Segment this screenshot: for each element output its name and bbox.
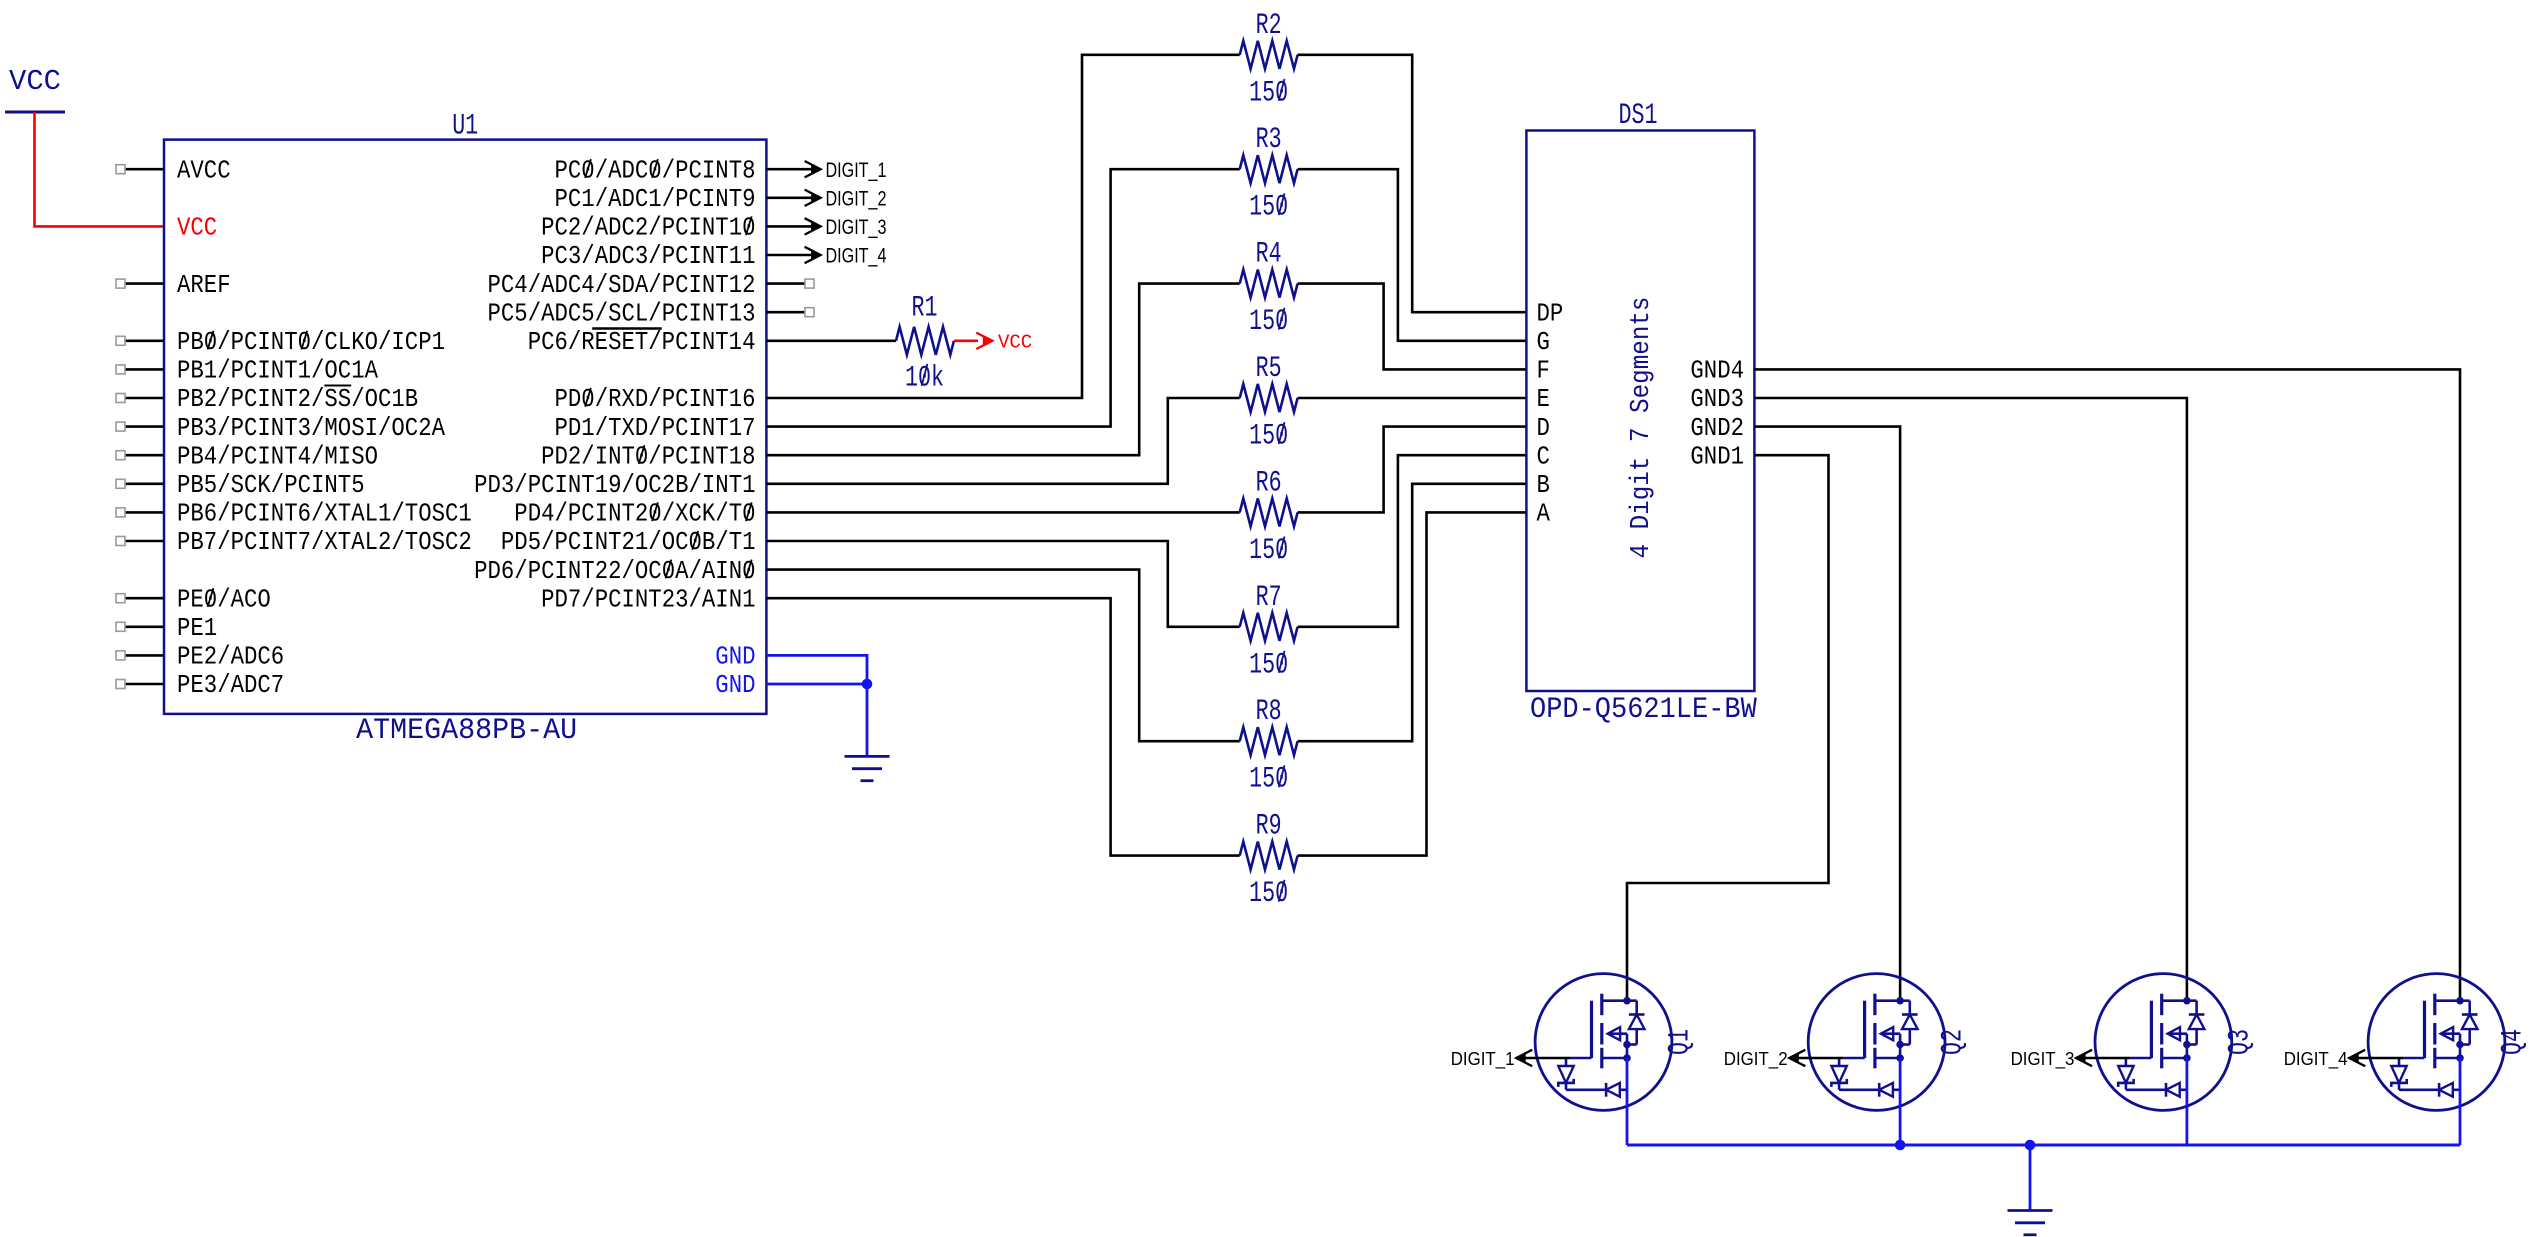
svg-text:DIGIT_1: DIGIT_1: [826, 159, 887, 182]
U1 pin PC2/ADC2/PCINT10 (right): [541, 214, 755, 243]
wire DS1 GND4 to Q4 drain: [1754, 369, 2460, 1000]
resistor R8: [1240, 727, 1298, 755]
svg-text:PB0/PCINT0/CLKO/ICP1: PB0/PCINT0/CLKO/ICP1: [177, 328, 445, 357]
svg-text:DIGIT_2: DIGIT_2: [826, 187, 887, 210]
svg-text:PE0/ACO: PE0/ACO: [177, 585, 271, 614]
wire DS1 GND1 to Q1 drain: [1627, 455, 1829, 1001]
Q4 reference label (rotated): [2497, 1029, 2531, 1055]
svg-text:DS1: DS1: [1619, 99, 1658, 133]
IC U1 ATMEGA88PB-AU body: [164, 140, 766, 714]
resistor R5: [1240, 384, 1298, 412]
svg-text:AREF: AREF: [177, 271, 231, 300]
svg-text:PC4/ADC4/SDA/PCINT12: PC4/ADC4/SDA/PCINT12: [488, 271, 756, 300]
Q1 reference label (rotated): [1664, 1029, 1698, 1055]
svg-text:U1: U1: [452, 110, 478, 144]
wire R4 to DS1 F: [1298, 284, 1527, 370]
svg-text:GND: GND: [715, 643, 755, 672]
svg-text:GND4: GND4: [1690, 357, 1744, 386]
svg-text:DIGIT_4: DIGIT_4: [826, 245, 887, 268]
wire U1 PD5 to R7: [766, 541, 1239, 627]
value label OPD-Q5621LE-BW: [1530, 693, 1757, 727]
reference designator DS1: [1619, 99, 1658, 133]
svg-text:PD1/TXD/PCINT17: PD1/TXD/PCINT17: [555, 414, 756, 443]
svg-text:VCC: VCC: [177, 214, 217, 243]
net port DIGIT_2 (output arrow at PC1): [766, 187, 886, 210]
svg-text:PB1/PCINT1/OC1A: PB1/PCINT1/OC1A: [177, 357, 379, 386]
net port DIGIT_1 (input arrow at Q1 gate): [1451, 1048, 1533, 1070]
U1 pin PD3/PCINT19/OC2B/INT1 (right): [474, 471, 755, 500]
U1 pin PB3/PCINT3/MOSI/OC2A (unconnected, left): [116, 414, 446, 443]
wire R5 to DS1 E: [1298, 397, 1527, 400]
svg-text:R6: R6: [1256, 466, 1282, 500]
U1 pin PB5/SCK/PCINT5 (unconnected, left): [116, 471, 365, 500]
U1 pin PC3/ADC3/PCINT11 (right): [541, 242, 755, 271]
R9 value 150: [1249, 877, 1288, 911]
svg-text:PD6/PCINT22/OC0A/AIN0: PD6/PCINT22/OC0A/AIN0: [474, 557, 755, 586]
wire R3 to DS1 G: [1298, 169, 1527, 341]
svg-text:GND3: GND3: [1690, 385, 1744, 414]
resistor R6: [1240, 498, 1298, 526]
svg-text:PE1: PE1: [177, 614, 217, 643]
R5 reference label: [1256, 352, 1282, 386]
svg-text:PE3/ADC7: PE3/ADC7: [177, 671, 284, 700]
U1 pin PB7/PCINT7/XTAL2/TOSC2 (unconnected, left): [116, 528, 472, 557]
net port DIGIT_4 (output arrow at PC3): [766, 245, 886, 268]
svg-text:DIGIT_3: DIGIT_3: [2011, 1048, 2075, 1070]
U1 pin PB2/PCINT2/SS/OC1B (unconnected, left): [116, 385, 418, 414]
svg-text:PC5/ADC5/SCL/PCINT13: PC5/ADC5/SCL/PCINT13: [488, 299, 756, 328]
wire U1 PD3 to R5: [766, 398, 1239, 484]
U1 pin PE2/ADC6 (unconnected, left): [116, 643, 284, 672]
net port DIGIT_1 (output arrow at PC0): [766, 159, 886, 182]
wire DIGIT_2 arrow to Q2 gate: [1789, 1057, 1843, 1060]
Q2 reference label (rotated): [1937, 1029, 1971, 1055]
display DS1 OPD-Q5621LE-BW body: [1526, 131, 1754, 692]
wire U1 PD6 to R8: [766, 570, 1239, 742]
svg-text:PB7/PCINT7/XTAL2/TOSC2: PB7/PCINT7/XTAL2/TOSC2: [177, 528, 472, 557]
svg-text:PC2/ADC2/PCINT10: PC2/ADC2/PCINT10: [541, 214, 755, 243]
svg-text:150: 150: [1249, 648, 1288, 682]
wire U1 PD2 to R4: [766, 284, 1239, 456]
net port DIGIT_3 (input arrow at Q3 gate): [2011, 1048, 2093, 1070]
DS1 pin A: [1537, 500, 1551, 529]
svg-text:PC6/RESET/PCINT14: PC6/RESET/PCINT14: [528, 328, 756, 357]
wire Q4 source to ground bus (blue): [2459, 1058, 2462, 1145]
U1 pin PD7/PCINT23/AIN1 (right): [541, 585, 755, 614]
svg-text:GND1: GND1: [1690, 442, 1744, 471]
U1 pin stub PC5 (unconnected): [766, 308, 814, 317]
svg-text:PB2/PCINT2/SS/OC1B: PB2/PCINT2/SS/OC1B: [177, 385, 418, 414]
wire U1 GND pins to ground (blue): [766, 655, 867, 756]
wire R7 to DS1 C: [1298, 455, 1527, 627]
svg-text:150: 150: [1249, 420, 1288, 454]
svg-text:ATMEGA88PB-AU: ATMEGA88PB-AU: [356, 714, 577, 748]
U1 pin PE3/ADC7 (unconnected, left): [116, 671, 284, 700]
R6 value 150: [1249, 534, 1288, 568]
U1 pin PB6/PCINT6/XTAL1/TOSC1 (unconnected, left): [116, 500, 472, 529]
svg-text:OPD-Q5621LE-BW: OPD-Q5621LE-BW: [1530, 693, 1757, 727]
svg-text:R8: R8: [1256, 695, 1282, 729]
svg-text:E: E: [1537, 385, 1550, 414]
U1 pin AVCC (unconnected, left): [116, 156, 231, 185]
svg-text:PD5/PCINT21/OC0B/T1: PD5/PCINT21/OC0B/T1: [501, 528, 756, 557]
wire DIGIT_1 arrow to Q1 gate: [1516, 1057, 1570, 1060]
wire VCC symbol to U1 VCC pin (red): [35, 112, 165, 226]
R1 value 10k: [905, 361, 944, 395]
svg-text:R3: R3: [1256, 123, 1282, 157]
svg-text:PB4/PCINT4/MISO: PB4/PCINT4/MISO: [177, 442, 378, 471]
U1 pin GND (lower, blue): [715, 671, 755, 700]
wire R8 to DS1 B: [1298, 484, 1527, 741]
wire R2 to DS1 DP: [1298, 55, 1527, 312]
svg-text:Q3: Q3: [2223, 1029, 2257, 1055]
U1 pin PC4/ADC4/SDA/PCINT12 (right): [488, 271, 756, 300]
DS1 pin GND3: [1690, 385, 1744, 414]
svg-text:GND: GND: [715, 671, 755, 700]
svg-text:R4: R4: [1256, 238, 1282, 272]
wire R6 to DS1 D: [1298, 427, 1527, 513]
svg-text:150: 150: [1249, 877, 1288, 911]
svg-text:B: B: [1537, 471, 1550, 500]
DS1 description 4 Digit 7 Segments (vertical): [1627, 297, 1657, 559]
svg-text:R5: R5: [1256, 352, 1282, 386]
resistor R7: [1240, 613, 1298, 641]
svg-text:PB6/PCINT6/XTAL1/TOSC1: PB6/PCINT6/XTAL1/TOSC1: [177, 500, 472, 529]
U1 pin PD5/PCINT21/OC0B/T1 (right): [501, 528, 756, 557]
svg-text:R9: R9: [1256, 810, 1282, 844]
power symbol VCC (top-left): [5, 65, 65, 112]
R2 value 150: [1249, 76, 1288, 110]
DS1 pin GND2: [1690, 414, 1744, 443]
U1 pin PD4/PCINT20/XCK/T0 (right): [514, 500, 755, 529]
DS1 pin E: [1537, 385, 1550, 414]
wire U1 PC6/RESET to R1: [766, 339, 896, 342]
svg-text:PD0/RXD/PCINT16: PD0/RXD/PCINT16: [555, 385, 756, 414]
DS1 pin B: [1537, 471, 1550, 500]
reference designator U1: [452, 110, 478, 144]
svg-text:A: A: [1537, 500, 1551, 529]
wire U1 PD1 to R3: [766, 169, 1239, 426]
net port DIGIT_3 (output arrow at PC2): [766, 216, 886, 239]
svg-text:150: 150: [1249, 534, 1288, 568]
ground symbol bottom-right: [2008, 1211, 2053, 1235]
U1 pin AREF (unconnected, left): [116, 271, 231, 300]
U1 pin PC5/ADC5/SCL/PCINT13 (right): [488, 299, 756, 328]
svg-text:R2: R2: [1256, 9, 1282, 43]
svg-text:PC3/ADC3/PCINT11: PC3/ADC3/PCINT11: [541, 242, 755, 271]
R9 reference label: [1256, 810, 1282, 844]
U1 pin stub PC4 (unconnected): [766, 279, 814, 288]
wire Q2 source to ground bus (blue): [1899, 1058, 1902, 1145]
DS1 pin GND1: [1690, 442, 1744, 471]
net port DIGIT_2 (input arrow at Q2 gate): [1724, 1048, 1806, 1070]
U1 pin PD2/INT0/PCINT18 (right): [541, 442, 755, 471]
R7 value 150: [1249, 648, 1288, 682]
wire U1 PD4 to R6: [766, 511, 1239, 514]
wire R9 to DS1 A: [1298, 512, 1527, 855]
svg-text:PD3/PCINT19/OC2B/INT1: PD3/PCINT19/OC2B/INT1: [474, 471, 755, 500]
wire U1 PD0 to R2: [766, 55, 1239, 398]
U1 pin VCC (red, connected): [177, 214, 217, 243]
junction dot Q2 source: [1895, 1140, 1906, 1151]
wire DIGIT_4 arrow to Q4 gate: [2349, 1057, 2403, 1060]
U1 pin PB4/PCINT4/MISO (unconnected, left): [116, 442, 378, 471]
DS1 pin F: [1537, 357, 1550, 386]
DS1 pin C: [1537, 442, 1550, 471]
ground bus (blue): [1627, 1144, 2460, 1147]
svg-text:VCC: VCC: [998, 331, 1032, 353]
svg-text:150: 150: [1249, 305, 1288, 339]
svg-text:DIGIT_3: DIGIT_3: [826, 216, 887, 239]
net port DIGIT_4 (input arrow at Q4 gate): [2284, 1048, 2366, 1070]
wire R1 to VCC arrow (red): [954, 339, 978, 342]
resistor R3: [1240, 155, 1298, 183]
R8 value 150: [1249, 763, 1288, 797]
wire DS1 GND3 to Q3 drain: [1754, 398, 2186, 1001]
transistor Q4 (P-MOSFET): [2368, 974, 2505, 1111]
ground symbol under U1: [845, 756, 890, 780]
svg-text:Q1: Q1: [1664, 1029, 1698, 1055]
svg-text:R1: R1: [912, 291, 938, 325]
U1 pin PE1 (unconnected, left): [116, 614, 217, 643]
R5 value 150: [1249, 420, 1288, 454]
value label ATMEGA88PB-AU: [356, 714, 577, 748]
svg-text:PD4/PCINT20/XCK/T0: PD4/PCINT20/XCK/T0: [514, 500, 755, 529]
svg-text:DIGIT_1: DIGIT_1: [1451, 1048, 1515, 1070]
R4 reference label: [1256, 238, 1282, 272]
svg-text:R7: R7: [1256, 581, 1282, 615]
svg-text:150: 150: [1249, 76, 1288, 110]
U1 pin PD0/RXD/PCINT16 (right): [555, 385, 756, 414]
svg-text:G: G: [1537, 328, 1550, 357]
svg-text:PD2/INT0/PCINT18: PD2/INT0/PCINT18: [541, 442, 755, 471]
U1 pin PD6/PCINT22/OC0A/AIN0 (right): [474, 557, 755, 586]
R4 value 150: [1249, 305, 1288, 339]
svg-text:150: 150: [1249, 191, 1288, 225]
svg-text:AVCC: AVCC: [177, 156, 231, 185]
Q3 reference label (rotated): [2223, 1029, 2257, 1055]
U1 pin PD1/TXD/PCINT17 (right): [555, 414, 756, 443]
wire U1 PD7 to R9: [766, 598, 1239, 855]
svg-text:D: D: [1537, 414, 1550, 443]
R6 reference label: [1256, 466, 1282, 500]
svg-text:VCC: VCC: [9, 65, 61, 98]
junction dot GND net: [862, 679, 873, 690]
R8 reference label: [1256, 695, 1282, 729]
svg-text:PD7/PCINT23/AIN1: PD7/PCINT23/AIN1: [541, 585, 755, 614]
junction dot ground stem: [2025, 1140, 2036, 1151]
R3 value 150: [1249, 191, 1288, 225]
resistor R1: [896, 327, 954, 355]
svg-text:DIGIT_2: DIGIT_2: [1724, 1048, 1788, 1070]
DS1 pin G: [1537, 328, 1550, 357]
resistor R2: [1240, 41, 1298, 69]
wire bus to ground symbol (blue): [2029, 1145, 2032, 1211]
U1 pin PC0/ADC0/PCINT8 (right): [555, 156, 756, 185]
svg-text:C: C: [1537, 442, 1550, 471]
svg-text:Q4: Q4: [2497, 1029, 2531, 1055]
svg-text:PB3/PCINT3/MOSI/OC2A: PB3/PCINT3/MOSI/OC2A: [177, 414, 446, 443]
U1 pin PE0/ACO (unconnected, left): [116, 585, 271, 614]
svg-text:Q2: Q2: [1937, 1029, 1971, 1055]
resistor R9: [1240, 842, 1298, 870]
transistor Q2 (P-MOSFET): [1808, 974, 1945, 1111]
R7 reference label: [1256, 581, 1282, 615]
DS1 pin GND4: [1690, 357, 1744, 386]
DS1 pin DP: [1537, 299, 1564, 328]
R1 reference label: [912, 291, 938, 325]
svg-text:DP: DP: [1537, 299, 1564, 328]
svg-text:150: 150: [1249, 763, 1288, 797]
svg-text:PB5/SCK/PCINT5: PB5/SCK/PCINT5: [177, 471, 365, 500]
U1 pin PB1/PCINT1/OC1A (unconnected, left): [116, 357, 379, 386]
U1 pin PB0/PCINT0/CLKO/ICP1 (unconnected, left): [116, 328, 445, 357]
transistor Q1 (P-MOSFET): [1535, 974, 1672, 1111]
svg-text:GND2: GND2: [1690, 414, 1744, 443]
svg-text:PE2/ADC6: PE2/ADC6: [177, 643, 284, 672]
wire Q3 source to ground bus (blue): [2185, 1058, 2188, 1145]
svg-text:DIGIT_4: DIGIT_4: [2284, 1048, 2348, 1070]
svg-text:PC1/ADC1/PCINT9: PC1/ADC1/PCINT9: [555, 185, 756, 214]
resistor R4: [1240, 270, 1298, 298]
DS1 pin D: [1537, 414, 1550, 443]
wire DS1 GND2 to Q2 drain: [1754, 427, 1900, 1001]
U1 pin PC1/ADC1/PCINT9 (right): [555, 185, 756, 214]
power port vcc (red arrow): [976, 331, 1032, 353]
wire DIGIT_3 arrow to Q3 gate: [2076, 1057, 2130, 1060]
transistor Q3 (P-MOSFET): [2095, 974, 2232, 1111]
svg-text:F: F: [1537, 357, 1550, 386]
R2 reference label: [1256, 9, 1282, 43]
U1 pin GND (upper, blue): [715, 643, 755, 672]
U1 pin PC6/RESET/PCINT14 (right): [528, 328, 756, 357]
R3 reference label: [1256, 123, 1282, 157]
wire Q1 source to ground bus (blue): [1626, 1058, 1629, 1145]
svg-text:4 Digit 7 Segments: 4 Digit 7 Segments: [1627, 297, 1657, 559]
